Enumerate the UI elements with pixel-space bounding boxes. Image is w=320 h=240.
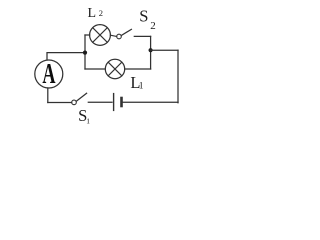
lamp L2	[90, 25, 111, 46]
wire: left rail to lamp L1	[85, 68, 105, 70]
switch S1 (open)	[72, 93, 87, 104]
node: left junction dot	[83, 51, 87, 55]
wire: right vertical joining S2 branch and L1 branch	[150, 36, 152, 69]
wire: ammeter bottom stub	[47, 88, 49, 103]
wire: bottom rail from ammeter to switch S1 pivot	[48, 102, 72, 104]
wire: lamp L1 to right vertical	[125, 68, 151, 70]
svg-text:2: 2	[99, 8, 103, 18]
node: right junction dot	[149, 48, 153, 52]
wire: left vertical rail between L2 and L1 branches	[84, 35, 86, 69]
svg-text:S: S	[139, 6, 148, 25]
ammeter A	[35, 59, 63, 90]
wire: ammeter top stub and horizontal to left junction	[47, 53, 85, 60]
svg-text:1: 1	[86, 116, 90, 125]
wire: lamp L2 to switch S2 pivot	[110, 35, 116, 36]
svg-text:A: A	[42, 59, 55, 90]
battery (cell)	[114, 94, 122, 111]
svg-text:2: 2	[150, 20, 156, 32]
wire: S1 fixed contact to battery	[88, 101, 112, 103]
switch S2 (open)	[117, 29, 132, 39]
svg-text:L: L	[88, 6, 97, 21]
wire: battery to right rail along bottom	[123, 101, 178, 103]
lamp L1	[105, 59, 124, 78]
wire: left rail to lamp L2	[85, 34, 90, 36]
svg-text:1: 1	[139, 81, 144, 91]
wire: right junction to right rail	[151, 49, 178, 51]
wire: S2 fixed contact to right vertical	[134, 35, 150, 37]
wire: right rail vertical	[177, 50, 179, 102]
